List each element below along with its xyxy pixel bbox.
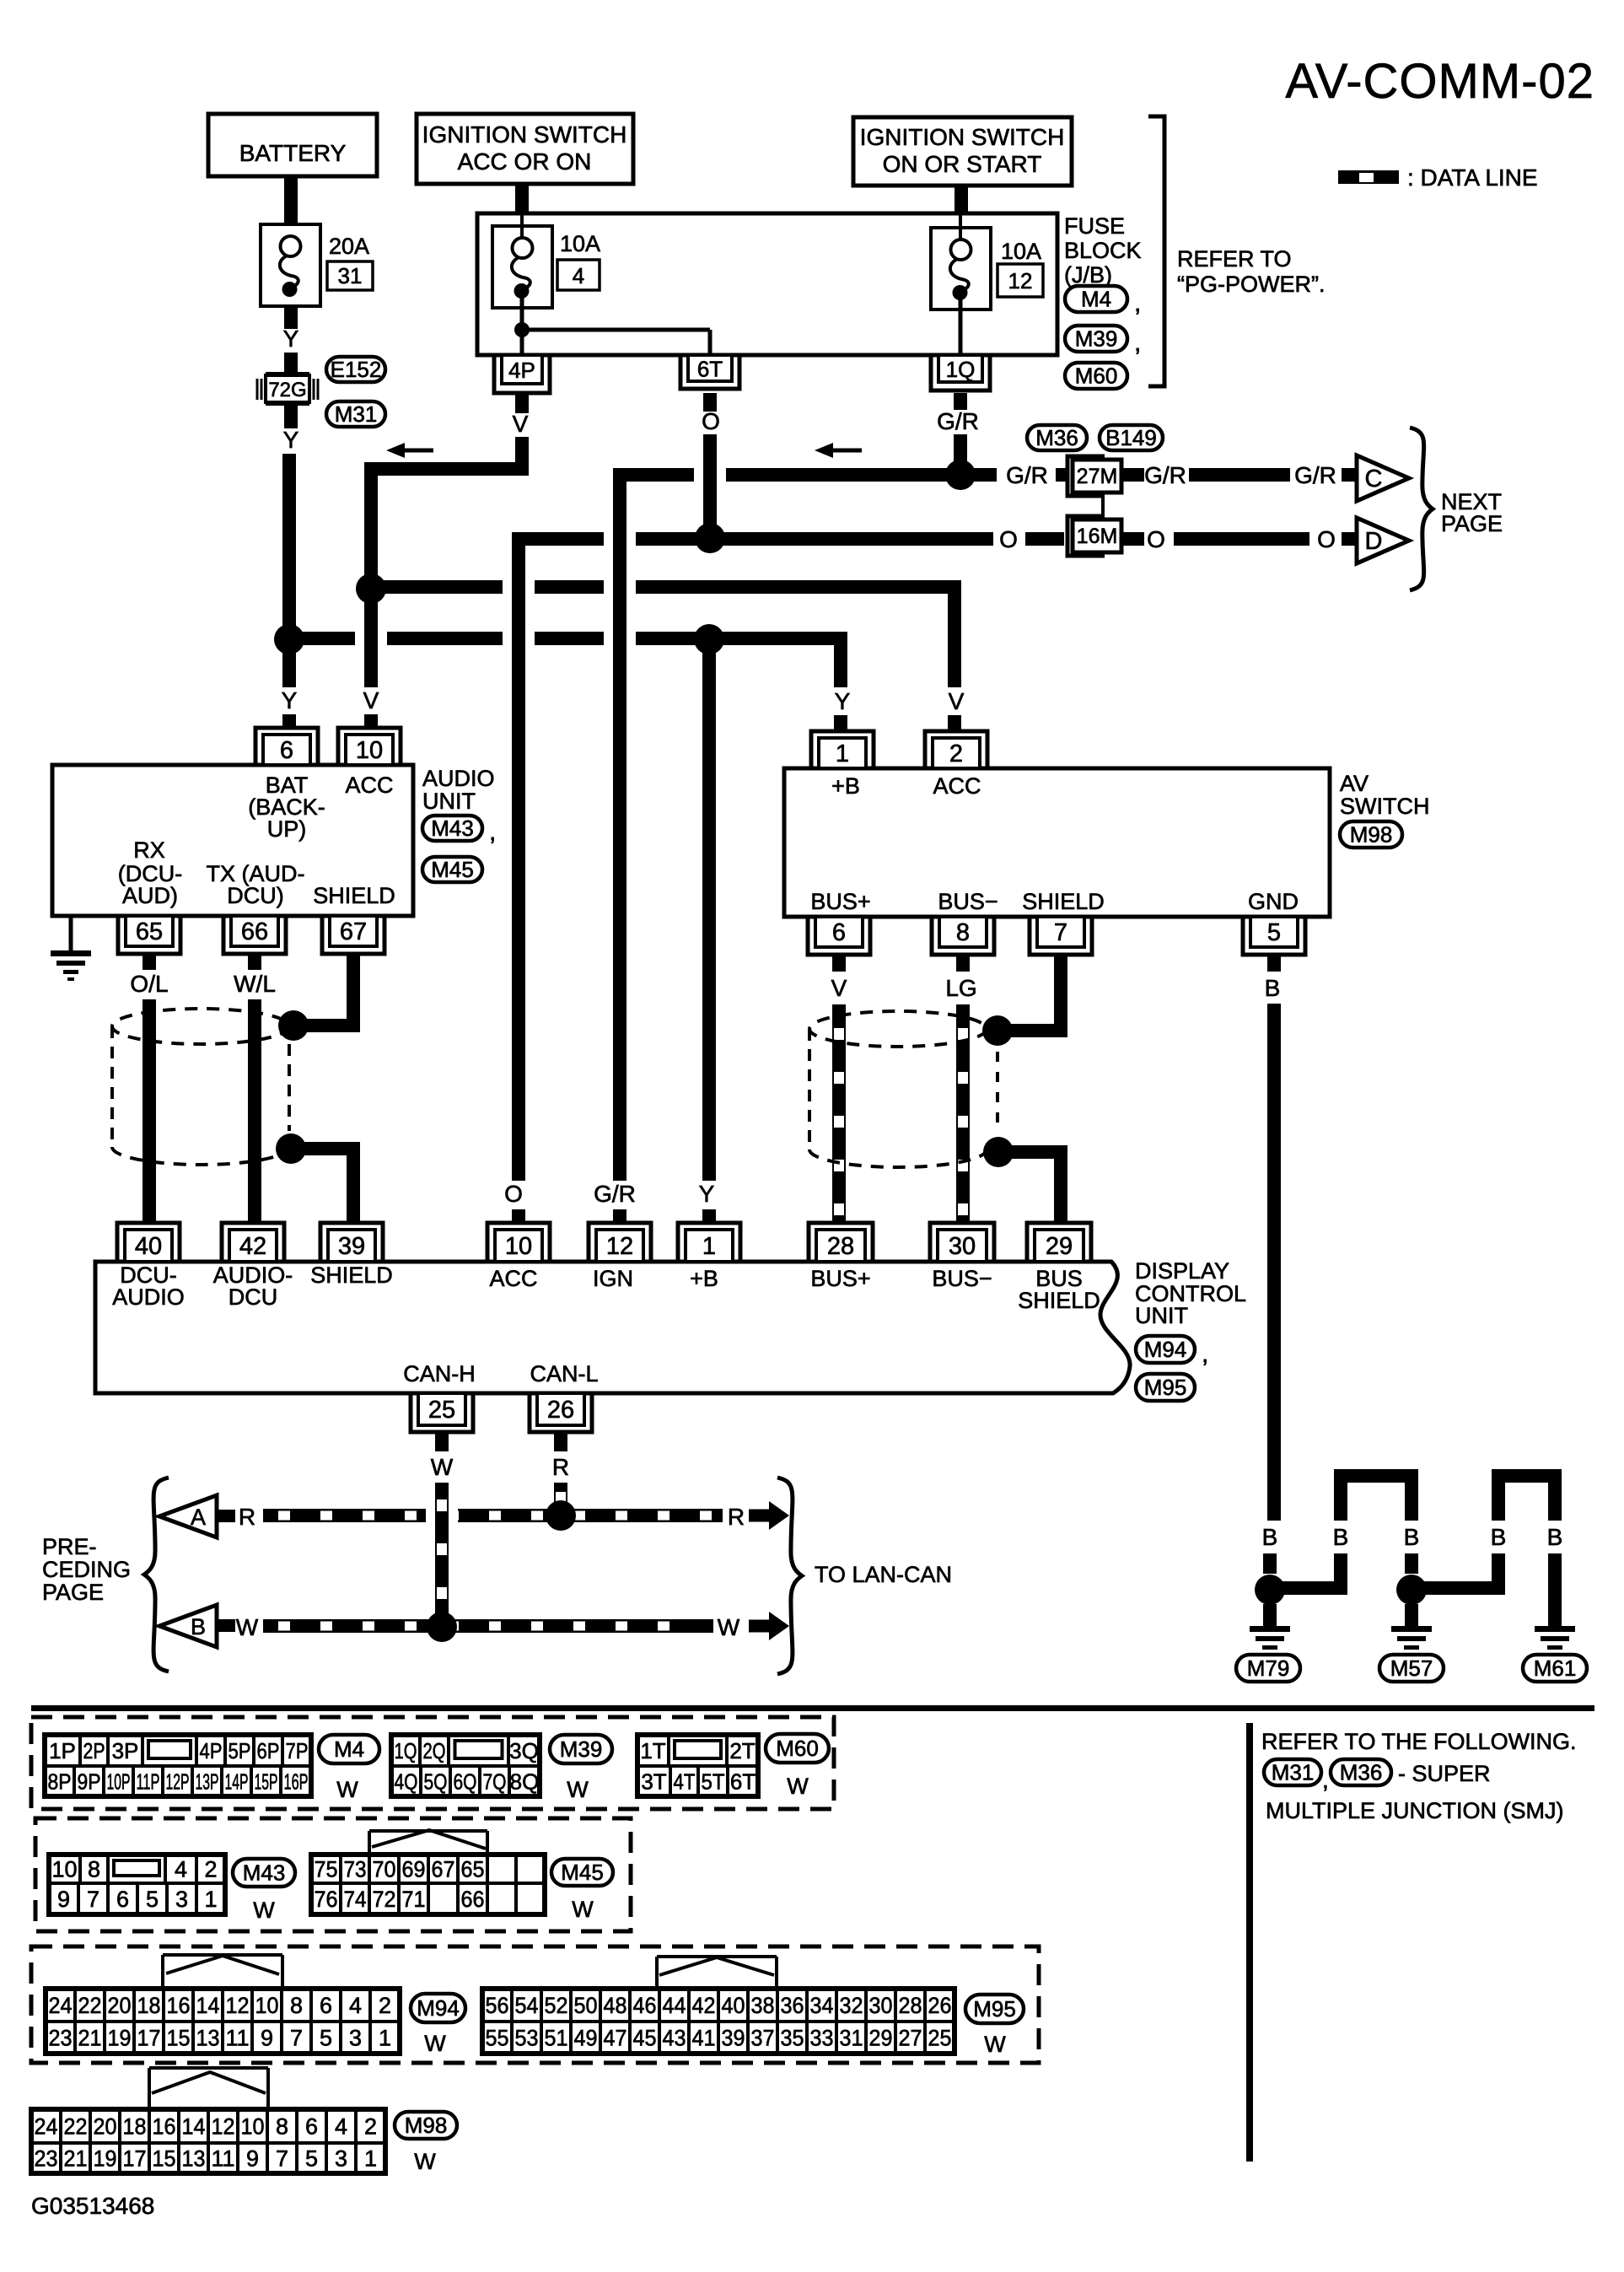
svg-text:PRE-: PRE-: [42, 1534, 97, 1559]
svg-text:ACC: ACC: [345, 773, 393, 798]
svg-text:: DATA LINE: : DATA LINE: [1407, 164, 1538, 191]
svg-text:W: W: [567, 1777, 589, 1802]
svg-text:1Q: 1Q: [946, 357, 976, 382]
svg-text:30: 30: [949, 1233, 976, 1260]
svg-text:11: 11: [212, 2146, 235, 2172]
svg-text:3: 3: [335, 2146, 347, 2172]
svg-text:10: 10: [51, 1857, 77, 1882]
svg-text:22: 22: [64, 2114, 88, 2140]
svg-text:5: 5: [305, 2146, 318, 2172]
svg-text:DCU: DCU: [229, 1284, 278, 1310]
svg-text:21: 21: [78, 2026, 102, 2051]
svg-text:12: 12: [212, 2114, 235, 2140]
svg-text:31: 31: [840, 2026, 863, 2051]
svg-text:M57: M57: [1390, 1656, 1433, 1681]
svg-text:1T: 1T: [640, 1738, 665, 1763]
svg-text:42: 42: [239, 1233, 266, 1260]
svg-text:7: 7: [290, 2026, 303, 2051]
svg-text:20: 20: [108, 1993, 132, 2018]
svg-text:M36: M36: [1035, 425, 1078, 450]
svg-text:13: 13: [196, 2026, 220, 2051]
svg-text:25: 25: [428, 1397, 455, 1424]
svg-text:4Q: 4Q: [395, 1769, 418, 1794]
svg-text:O: O: [999, 526, 1018, 552]
svg-text:M95: M95: [973, 1996, 1016, 2022]
svg-text:G/R: G/R: [1294, 462, 1336, 488]
svg-text:23: 23: [35, 2146, 58, 2172]
svg-text:ACC: ACC: [933, 773, 981, 799]
svg-text:3: 3: [349, 2026, 362, 2051]
svg-text:AV: AV: [1340, 771, 1369, 796]
svg-text:54: 54: [515, 1993, 539, 2018]
svg-text:+B: +B: [690, 1266, 718, 1291]
svg-text:M43: M43: [243, 1860, 286, 1886]
svg-text:IGN: IGN: [593, 1266, 633, 1291]
svg-text:17: 17: [123, 2146, 147, 2172]
svg-text:13P: 13P: [196, 1769, 219, 1794]
svg-text:6: 6: [320, 1993, 332, 2018]
svg-text:5Q: 5Q: [424, 1769, 448, 1794]
svg-text:M39: M39: [1075, 326, 1118, 352]
svg-text:4: 4: [175, 1857, 187, 1882]
svg-text:A: A: [191, 1505, 206, 1530]
svg-text:45: 45: [633, 2026, 657, 2051]
svg-text:1: 1: [702, 1233, 716, 1260]
svg-text:B: B: [1491, 1524, 1507, 1550]
svg-text:6: 6: [280, 737, 293, 764]
svg-text:ON OR START: ON OR START: [883, 151, 1042, 177]
svg-text:AUD): AUD): [122, 883, 178, 908]
svg-text:R: R: [552, 1454, 569, 1480]
svg-text:42: 42: [692, 1993, 716, 2018]
svg-text:R: R: [728, 1504, 745, 1530]
svg-text:1P: 1P: [49, 1738, 76, 1763]
svg-text:29: 29: [1046, 1233, 1073, 1260]
svg-text:20A: 20A: [329, 234, 369, 259]
svg-text:12: 12: [226, 1993, 250, 2018]
svg-text:REFER TO: REFER TO: [1177, 246, 1292, 272]
svg-text:17: 17: [137, 2026, 161, 2051]
svg-text:C: C: [1365, 466, 1383, 493]
svg-text:2P: 2P: [83, 1738, 105, 1763]
svg-text:22: 22: [78, 1993, 102, 2018]
svg-text:14: 14: [196, 1993, 220, 2018]
svg-text:6: 6: [305, 2114, 318, 2140]
svg-text:V: V: [513, 411, 529, 437]
svg-text:15P: 15P: [255, 1769, 278, 1794]
svg-text:8: 8: [956, 919, 970, 946]
svg-text:15: 15: [167, 2026, 191, 2051]
svg-text:FUSE: FUSE: [1064, 213, 1125, 239]
svg-text:7: 7: [276, 2146, 288, 2172]
svg-text:25: 25: [928, 2026, 952, 2051]
svg-text:W: W: [424, 2031, 446, 2056]
svg-text:AUDIO: AUDIO: [112, 1284, 185, 1310]
svg-text:69: 69: [402, 1857, 426, 1882]
svg-text:32: 32: [840, 1993, 863, 2018]
svg-text:M60: M60: [1075, 363, 1118, 389]
svg-text:33: 33: [810, 2026, 834, 2051]
svg-text:(J/B): (J/B): [1064, 262, 1112, 288]
svg-text:11P: 11P: [137, 1769, 160, 1794]
svg-text:W: W: [414, 2149, 436, 2174]
svg-text:19: 19: [94, 2146, 117, 2172]
svg-text:5T: 5T: [702, 1769, 725, 1794]
svg-text:MULTIPLE JUNCTION (SMJ): MULTIPLE JUNCTION (SMJ): [1266, 1798, 1564, 1823]
svg-text:26: 26: [547, 1397, 574, 1424]
svg-text:7: 7: [87, 1887, 99, 1912]
svg-text:9: 9: [57, 1887, 70, 1912]
svg-text:67: 67: [432, 1857, 455, 1882]
svg-text:14P: 14P: [225, 1769, 249, 1794]
svg-text:W: W: [336, 1777, 358, 1802]
svg-text:W: W: [718, 1614, 740, 1640]
svg-text:M39: M39: [560, 1736, 603, 1762]
svg-text:M43: M43: [431, 816, 474, 841]
svg-text:16: 16: [153, 2114, 176, 2140]
svg-text:15: 15: [153, 2146, 176, 2172]
svg-text:2T: 2T: [729, 1738, 755, 1763]
svg-text:M36: M36: [1340, 1760, 1383, 1785]
svg-text:34: 34: [810, 1993, 834, 2018]
svg-text:10A: 10A: [1001, 239, 1041, 264]
svg-text:27M: 27M: [1077, 465, 1118, 488]
svg-text:ACC OR ON: ACC OR ON: [458, 148, 592, 175]
svg-text:W: W: [431, 1454, 454, 1480]
svg-text:13: 13: [182, 2146, 206, 2172]
svg-text:19: 19: [108, 2026, 132, 2051]
svg-text:75: 75: [315, 1857, 338, 1882]
svg-text:55: 55: [486, 2026, 509, 2051]
svg-text:66: 66: [241, 918, 268, 945]
svg-text:AV-COMM-02: AV-COMM-02: [1285, 54, 1594, 109]
svg-text:37: 37: [751, 2026, 775, 2051]
svg-text:TO LAN-CAN: TO LAN-CAN: [815, 1562, 952, 1587]
svg-text:46: 46: [633, 1993, 657, 2018]
svg-text:PAGE: PAGE: [42, 1580, 104, 1605]
svg-text:65: 65: [136, 918, 163, 945]
svg-text:4: 4: [349, 1993, 362, 2018]
svg-text:7Q: 7Q: [483, 1769, 507, 1794]
svg-text:2: 2: [949, 740, 963, 767]
svg-text:M79: M79: [1247, 1656, 1290, 1681]
svg-text:39: 39: [338, 1233, 365, 1260]
svg-text:,: ,: [1134, 289, 1141, 317]
svg-text:ACC: ACC: [489, 1266, 537, 1291]
svg-text:28: 28: [827, 1233, 854, 1260]
svg-text:4T: 4T: [674, 1769, 696, 1794]
svg-text:B: B: [1265, 975, 1281, 1001]
svg-text:4: 4: [573, 263, 584, 288]
svg-text:M45: M45: [561, 1860, 604, 1885]
svg-text:16: 16: [167, 1993, 191, 2018]
svg-text:36: 36: [781, 1993, 804, 2018]
svg-text:CAN-H: CAN-H: [403, 1361, 476, 1386]
svg-text:48: 48: [604, 1993, 627, 2018]
svg-text:3: 3: [175, 1887, 188, 1912]
svg-text:2: 2: [379, 1993, 391, 2018]
svg-text:29: 29: [869, 2026, 893, 2051]
svg-text:40: 40: [135, 1233, 162, 1260]
svg-text:6: 6: [116, 1887, 129, 1912]
svg-text:BLOCK: BLOCK: [1064, 238, 1142, 263]
svg-text:B: B: [1547, 1524, 1563, 1550]
svg-text:B149: B149: [1105, 425, 1157, 450]
svg-text:W/L: W/L: [234, 971, 276, 997]
svg-text:21: 21: [64, 2146, 88, 2172]
svg-text:Y: Y: [283, 326, 299, 352]
svg-text:Y: Y: [835, 688, 851, 714]
svg-text:11: 11: [226, 2026, 250, 2051]
svg-text:W: W: [236, 1614, 259, 1640]
svg-text:BUS−: BUS−: [932, 1266, 992, 1291]
svg-text:1: 1: [836, 740, 849, 767]
svg-text:10: 10: [255, 1993, 279, 2018]
svg-text:IGNITION SWITCH: IGNITION SWITCH: [860, 124, 1065, 150]
svg-text:O/L: O/L: [130, 971, 168, 997]
svg-text:4P: 4P: [508, 358, 535, 383]
svg-text:1: 1: [204, 1887, 217, 1912]
svg-text:5: 5: [320, 2026, 332, 2051]
svg-text:28: 28: [899, 1993, 922, 2018]
svg-text:3T: 3T: [641, 1769, 666, 1794]
svg-text:43: 43: [663, 2026, 686, 2051]
svg-text:74: 74: [344, 1887, 367, 1912]
svg-text:16P: 16P: [284, 1769, 309, 1794]
svg-text:CEDING: CEDING: [42, 1557, 131, 1582]
svg-text:W: W: [984, 2032, 1006, 2057]
svg-text:SHIELD: SHIELD: [1022, 889, 1105, 914]
svg-text:72G: 72G: [268, 379, 306, 401]
svg-text:+B: +B: [831, 773, 860, 799]
svg-text:M31: M31: [1272, 1760, 1315, 1785]
svg-text:1Q: 1Q: [395, 1738, 417, 1763]
svg-text:DCU): DCU): [227, 883, 284, 908]
svg-text:18: 18: [137, 1993, 161, 2018]
svg-text:10: 10: [505, 1233, 532, 1260]
svg-text:Y: Y: [699, 1181, 715, 1207]
svg-text:6P: 6P: [257, 1738, 280, 1763]
svg-text:56: 56: [486, 1993, 509, 2018]
svg-text:UNIT: UNIT: [1135, 1303, 1188, 1328]
svg-text:7: 7: [1054, 919, 1067, 946]
svg-text:47: 47: [604, 2026, 627, 2051]
svg-text:Y: Y: [283, 427, 299, 453]
svg-text:G03513468: G03513468: [31, 2193, 154, 2219]
svg-text:M98: M98: [1350, 822, 1393, 848]
svg-text:- SUPER: - SUPER: [1398, 1761, 1491, 1786]
svg-text:65: 65: [461, 1857, 485, 1882]
svg-text:3Q: 3Q: [509, 1738, 539, 1763]
svg-text:1: 1: [379, 2026, 391, 2051]
svg-text:B: B: [1404, 1524, 1420, 1550]
svg-text:9: 9: [246, 2146, 259, 2172]
svg-text:,: ,: [1202, 1340, 1208, 1368]
svg-text:8: 8: [276, 2114, 288, 2140]
svg-text:GND: GND: [1248, 889, 1299, 914]
svg-text:E152: E152: [331, 357, 382, 382]
svg-text:40: 40: [722, 1993, 745, 2018]
svg-text:8: 8: [290, 1993, 303, 2018]
svg-text:51: 51: [545, 2026, 568, 2051]
svg-text:18: 18: [123, 2114, 147, 2140]
svg-text:5: 5: [146, 1887, 159, 1912]
svg-text:6: 6: [832, 919, 846, 946]
svg-text:8: 8: [88, 1857, 100, 1882]
svg-text:66: 66: [461, 1887, 485, 1912]
svg-text:LG: LG: [945, 975, 976, 1001]
svg-text:M60: M60: [776, 1736, 819, 1761]
svg-text:DISPLAY: DISPLAY: [1135, 1258, 1229, 1284]
svg-text:SHIELD: SHIELD: [313, 883, 395, 908]
svg-text:16M: 16M: [1077, 525, 1118, 548]
svg-text:SHIELD: SHIELD: [1018, 1288, 1100, 1313]
svg-text:10A: 10A: [560, 231, 600, 256]
svg-text:12: 12: [606, 1233, 633, 1260]
svg-text:20: 20: [94, 2114, 117, 2140]
svg-text:3P: 3P: [112, 1738, 139, 1763]
svg-text:BUS−: BUS−: [938, 889, 998, 914]
svg-text:6Q: 6Q: [454, 1769, 477, 1794]
svg-text:,: ,: [489, 818, 496, 846]
svg-text:9P: 9P: [78, 1769, 101, 1794]
svg-text:RX: RX: [133, 837, 165, 863]
svg-text:2Q: 2Q: [423, 1738, 446, 1763]
svg-text:M94: M94: [417, 1995, 460, 2021]
svg-text:,: ,: [1322, 1767, 1329, 1793]
svg-text:G/R: G/R: [937, 408, 979, 434]
svg-text:49: 49: [574, 2026, 598, 2051]
svg-text:BUS+: BUS+: [810, 889, 870, 914]
svg-text:SWITCH: SWITCH: [1340, 794, 1429, 819]
svg-text:O: O: [504, 1181, 523, 1207]
svg-text:12P: 12P: [166, 1769, 190, 1794]
svg-text:30: 30: [869, 1993, 893, 2018]
svg-text:CAN-L: CAN-L: [530, 1361, 598, 1386]
svg-text:72: 72: [373, 1887, 396, 1912]
svg-text:7P: 7P: [286, 1738, 309, 1763]
svg-text:W: W: [253, 1898, 275, 1923]
svg-text:5P: 5P: [229, 1738, 251, 1763]
svg-text:M98: M98: [405, 2113, 448, 2138]
svg-text:M4: M4: [334, 1736, 364, 1762]
svg-text:9: 9: [261, 2026, 273, 2051]
svg-text:“PG-POWER”.: “PG-POWER”.: [1177, 272, 1326, 297]
svg-text:31: 31: [338, 263, 363, 288]
svg-text:53: 53: [515, 2026, 539, 2051]
svg-text:R: R: [239, 1504, 255, 1530]
svg-text:PAGE: PAGE: [1441, 511, 1503, 536]
svg-text:50: 50: [574, 1993, 598, 2018]
svg-text:2: 2: [204, 1857, 217, 1882]
svg-text:44: 44: [663, 1993, 686, 2018]
svg-text:UP): UP): [267, 816, 307, 842]
svg-text:W: W: [787, 1774, 809, 1799]
svg-text:8Q: 8Q: [510, 1769, 540, 1794]
svg-text:AUDIO: AUDIO: [422, 766, 495, 791]
svg-text:76: 76: [315, 1887, 338, 1912]
svg-text:W: W: [572, 1897, 594, 1922]
svg-text:70: 70: [373, 1857, 396, 1882]
svg-text:67: 67: [340, 918, 367, 945]
svg-text:73: 73: [344, 1857, 367, 1882]
svg-text:V: V: [949, 688, 965, 714]
svg-text:71: 71: [402, 1887, 426, 1912]
svg-text:2: 2: [364, 2114, 377, 2140]
svg-text:UNIT: UNIT: [422, 789, 476, 814]
svg-text:4P: 4P: [200, 1738, 223, 1763]
svg-text:Y: Y: [282, 687, 298, 713]
svg-text:REFER TO THE FOLLOWING.: REFER TO THE FOLLOWING.: [1261, 1729, 1577, 1754]
svg-text:B: B: [1333, 1524, 1349, 1550]
svg-text:O: O: [1317, 526, 1336, 552]
svg-text:41: 41: [692, 2026, 716, 2051]
svg-text:D: D: [1365, 528, 1383, 555]
svg-text:23: 23: [49, 2026, 73, 2051]
svg-text:10: 10: [356, 737, 383, 764]
svg-text:G/R: G/R: [1144, 462, 1186, 488]
svg-text:14: 14: [182, 2114, 206, 2140]
svg-text:24: 24: [35, 2114, 58, 2140]
svg-text:M94: M94: [1144, 1337, 1187, 1362]
svg-text:O: O: [702, 408, 720, 434]
svg-text:G/R: G/R: [594, 1181, 636, 1207]
svg-text:12: 12: [1008, 268, 1033, 293]
svg-text:35: 35: [781, 2026, 804, 2051]
svg-text:26: 26: [928, 1993, 952, 2018]
svg-text:IGNITION SWITCH: IGNITION SWITCH: [422, 121, 627, 148]
svg-text:1: 1: [364, 2146, 377, 2172]
svg-text:5: 5: [1267, 919, 1281, 946]
svg-text:B: B: [1262, 1524, 1278, 1550]
svg-text:24: 24: [49, 1993, 73, 2018]
svg-text:,: ,: [1134, 329, 1141, 357]
svg-text:O: O: [1147, 526, 1165, 552]
svg-text:6T: 6T: [697, 357, 723, 382]
svg-text:M4: M4: [1081, 287, 1111, 312]
svg-text:38: 38: [751, 1993, 775, 2018]
svg-text:BATTERY: BATTERY: [239, 140, 347, 166]
svg-text:G/R: G/R: [1006, 462, 1048, 488]
svg-text:39: 39: [722, 2026, 745, 2051]
svg-text:SHIELD: SHIELD: [310, 1263, 393, 1288]
svg-text:V: V: [831, 975, 847, 1001]
svg-text:B: B: [191, 1614, 206, 1639]
svg-text:M95: M95: [1144, 1375, 1187, 1400]
svg-text:27: 27: [899, 2026, 922, 2051]
svg-text:M61: M61: [1534, 1656, 1577, 1681]
svg-text:52: 52: [545, 1993, 568, 2018]
svg-text:10: 10: [241, 2114, 265, 2140]
svg-text:6T: 6T: [730, 1769, 756, 1794]
svg-text:M31: M31: [335, 401, 378, 427]
svg-text:M45: M45: [431, 857, 474, 882]
svg-text:BUS+: BUS+: [810, 1266, 870, 1291]
svg-text:10P: 10P: [107, 1769, 131, 1794]
svg-text:4: 4: [335, 2114, 347, 2140]
svg-text:8P: 8P: [48, 1769, 72, 1794]
svg-text:V: V: [363, 687, 379, 713]
